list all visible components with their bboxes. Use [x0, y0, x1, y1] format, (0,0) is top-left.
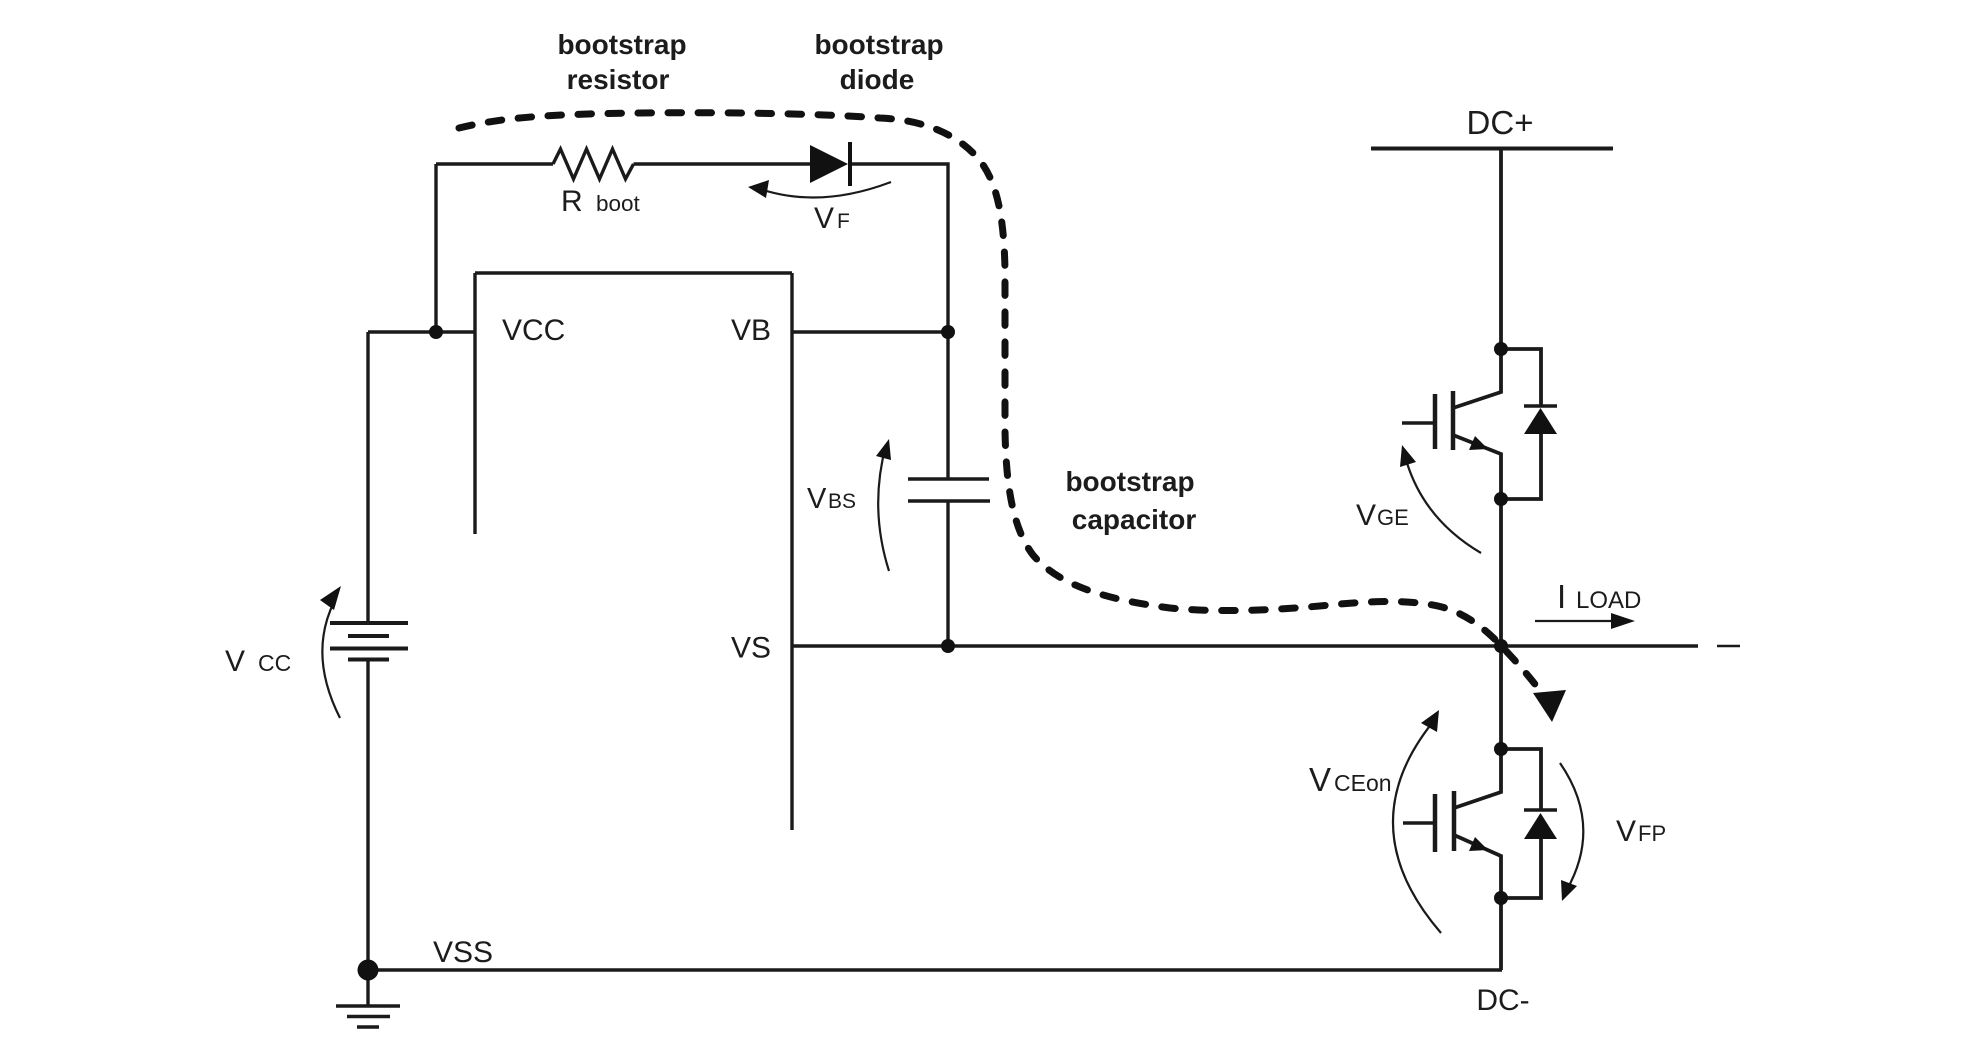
- arrowhead V CC: [320, 586, 341, 610]
- wire capacitor bottom plate down to VS node: [946, 501, 949, 646]
- bottom IGBT emitter lead: [1454, 835, 1501, 898]
- arrowhead VBS: [876, 439, 891, 460]
- svg-text:V: V: [807, 483, 827, 515]
- arrowhead I LOAD: [1611, 613, 1635, 629]
- svg-text:V: V: [1309, 761, 1331, 798]
- top IGBT gate lead: [1402, 421, 1435, 424]
- arrowhead VCEon: [1421, 710, 1439, 732]
- DC+ rail: [1371, 147, 1613, 151]
- node VB junction dot: [941, 325, 955, 339]
- node VSS junction dot: [358, 960, 379, 981]
- svg-text:V: V: [814, 202, 834, 235]
- arrowhead VGE: [1400, 445, 1416, 467]
- capacitor bottom plate: [908, 499, 990, 502]
- arrow arc VBS (left of capacitor): [878, 445, 889, 571]
- resistor R boot zigzag: [553, 149, 634, 179]
- dashed bootstrap charging current path: [459, 113, 1547, 701]
- svg-text:FP: FP: [1638, 821, 1666, 846]
- arrow arc VGE: [1407, 463, 1481, 553]
- wire VSS bottom rail: [368, 968, 1502, 971]
- bottom IGBT gate lead: [1403, 821, 1435, 824]
- svg-text:VSS: VSS: [433, 936, 493, 969]
- svg-text:resistor: resistor: [567, 64, 670, 95]
- ground bar 1: [336, 1004, 400, 1007]
- svg-text:GE: GE: [1377, 505, 1409, 530]
- battery V CC long plate 1: [330, 621, 408, 625]
- wire top loop left segment to resistor: [436, 162, 553, 165]
- svg-text:bootstrap: bootstrap: [814, 29, 943, 60]
- top IGBT emitter lead: [1453, 435, 1501, 499]
- wire battery top lead: [366, 332, 369, 623]
- svg-text:F: F: [837, 210, 850, 233]
- battery short plate 2: [348, 658, 389, 662]
- svg-text:capacitor: capacitor: [1072, 504, 1197, 535]
- bootstrap diode triangle: [810, 145, 848, 183]
- wire left vertical from top loop down to VCC node: [434, 164, 437, 332]
- node bottom IGBT collector dot: [1494, 742, 1508, 756]
- bottom IGBT emitter arrow: [1469, 837, 1488, 851]
- svg-text:V: V: [1616, 815, 1636, 848]
- bottom IGBT body bar: [1452, 791, 1457, 851]
- ground bar 3: [357, 1025, 379, 1028]
- wire diode to top-right corner and down to VB node: [850, 164, 948, 332]
- bottom IGBT collector lead: [1454, 749, 1501, 808]
- bottom diode cathode bar: [1524, 808, 1557, 811]
- arrow arc VF (under diode): [760, 182, 891, 198]
- svg-text:diode: diode: [840, 64, 915, 95]
- svg-text:VS: VS: [731, 632, 771, 665]
- load line continuation tick: [1717, 645, 1740, 648]
- wire bottom emitter to DC- rail: [1499, 898, 1503, 970]
- top IGBT emitter arrow: [1469, 436, 1488, 450]
- node VS-capacitor junction dot: [941, 639, 955, 653]
- bottom IGBT gate bar: [1433, 794, 1438, 852]
- svg-text:V: V: [225, 645, 245, 678]
- top freewheel diode triangle: [1524, 408, 1557, 434]
- node load junction dot: [1494, 639, 1508, 653]
- IC box top edge: [475, 271, 792, 274]
- IC box left edge (partial): [473, 273, 476, 534]
- wire top emitter to VS node: [1499, 499, 1503, 646]
- bootstrap diode cathode bar: [848, 142, 852, 186]
- svg-text:CEon: CEon: [1334, 770, 1392, 796]
- svg-text:R: R: [561, 185, 583, 218]
- svg-text:V: V: [1356, 499, 1376, 532]
- top IGBT gate bar: [1433, 394, 1438, 449]
- wire battery bottom lead to VSS node: [366, 660, 369, 971]
- ground bar 2: [347, 1015, 390, 1018]
- node VCC junction dot: [429, 325, 443, 339]
- svg-text:BS: BS: [828, 490, 856, 513]
- node top IGBT collector dot: [1494, 342, 1508, 356]
- wire DC+ down to top IGBT collector node: [1499, 148, 1503, 349]
- wire VB node down to capacitor top plate: [946, 332, 949, 479]
- arrowhead VF: [748, 180, 769, 198]
- svg-text:bootstrap: bootstrap: [557, 29, 686, 60]
- top freewheel diode loop wires: [1501, 349, 1541, 499]
- bottom freewheel diode loop wires: [1501, 749, 1541, 898]
- arrow line I LOAD: [1535, 620, 1612, 622]
- IC box right edge: [790, 273, 793, 830]
- svg-text:DC+: DC+: [1467, 104, 1534, 141]
- svg-text:LOAD: LOAD: [1576, 587, 1641, 614]
- wire from Vcc battery corner to VCC pin: [368, 330, 475, 333]
- top IGBT body bar: [1451, 391, 1456, 450]
- svg-text:VB: VB: [731, 314, 771, 347]
- dashed path arrowhead: [1533, 690, 1566, 722]
- arrow arc V CC (right of label): [322, 602, 340, 718]
- ground stub: [366, 970, 369, 1006]
- svg-text:boot: boot: [596, 191, 641, 216]
- battery short plate 1: [348, 634, 389, 638]
- node top IGBT emitter dot: [1494, 492, 1508, 506]
- svg-text:I: I: [1557, 578, 1566, 615]
- capacitor top plate: [908, 477, 989, 480]
- arrow arc VFP (right of bottom diode): [1560, 763, 1583, 893]
- svg-text:VCC: VCC: [502, 314, 565, 347]
- wire VB pin to bootstrap cap top node: [792, 330, 948, 333]
- arrow arc VCEon (big): [1393, 717, 1441, 933]
- battery long plate 2: [330, 647, 408, 651]
- svg-text:DC-: DC-: [1476, 984, 1529, 1017]
- wire VS node to bottom IGBT collector: [1499, 646, 1503, 749]
- top diode cathode bar: [1524, 404, 1557, 407]
- node bottom IGBT emitter dot: [1494, 891, 1508, 905]
- wire resistor to diode: [634, 162, 811, 165]
- svg-text:bootstrap: bootstrap: [1065, 466, 1194, 497]
- arrowhead VFP: [1561, 880, 1577, 901]
- bottom freewheel diode triangle: [1524, 813, 1557, 839]
- svg-text:CC: CC: [258, 650, 291, 676]
- top IGBT collector lead: [1453, 349, 1501, 408]
- wire VS pin / load line: [792, 644, 1698, 647]
